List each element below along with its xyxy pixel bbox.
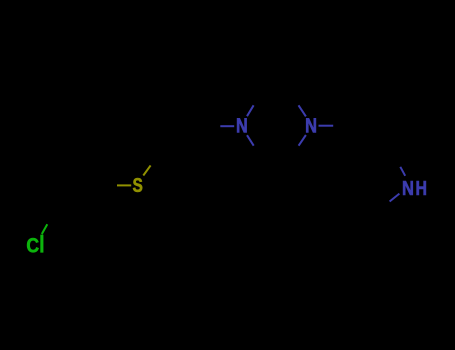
piperazine bond N1 down-right (nitrogen half) xyxy=(247,135,254,146)
chlorine label Cl xyxy=(27,235,43,252)
bond N2-C horizontal (nitrogen half) xyxy=(319,125,334,127)
piperazine N2 label xyxy=(306,118,316,132)
piperazine bond N2 down-left (nitrogen half) xyxy=(299,135,306,146)
bond S-C diagonal (sulfur half) xyxy=(143,165,150,175)
piperidine bond C-NH upper (nitrogen half) xyxy=(400,167,405,176)
piperazine bond N1 up-right (nitrogen half) xyxy=(247,105,254,116)
piperidine bond C-NH lower-left (nitrogen half) xyxy=(390,194,400,202)
bond C-S horizontal (sulfur half) xyxy=(117,184,131,186)
piperidine NH label xyxy=(403,181,426,195)
bond C-N1 horizontal (nitrogen half) xyxy=(220,125,234,127)
piperazine N1 label xyxy=(237,118,247,132)
bond Cl-C (green half) xyxy=(42,224,48,234)
piperazine bond N2 up-left (nitrogen half) xyxy=(299,105,306,116)
sulfur label S xyxy=(133,178,142,192)
